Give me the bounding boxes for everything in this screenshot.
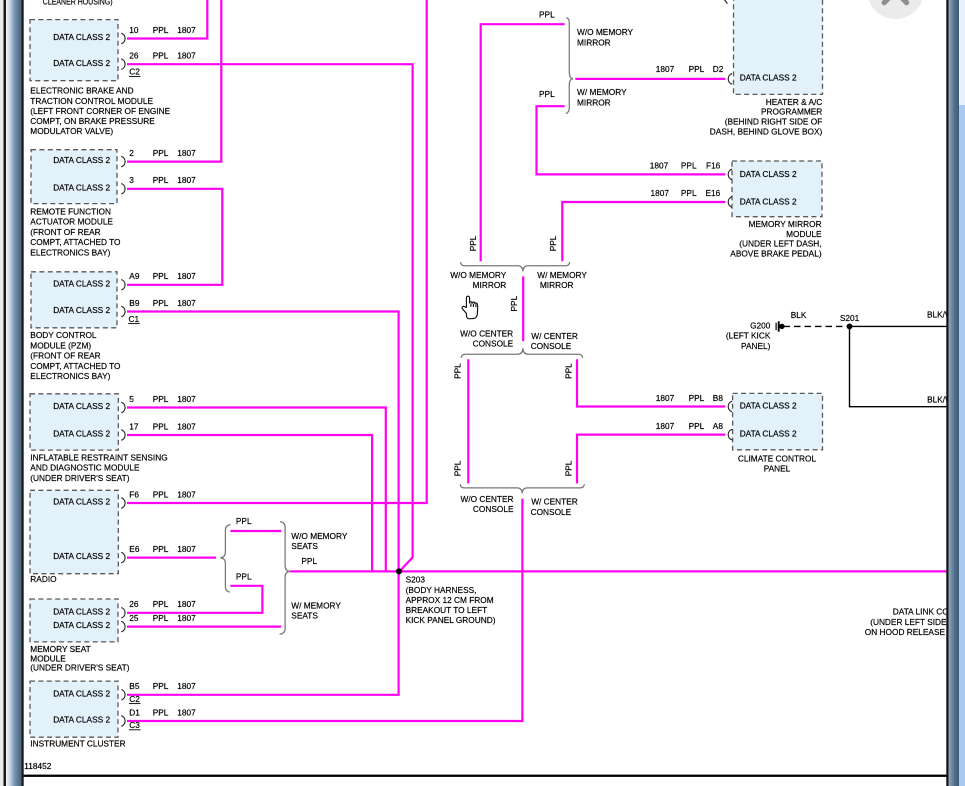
wire PPL w/ memory mirror branch to pin F16 [537, 106, 726, 174]
right scrollbar thumb [959, 105, 965, 786]
module label heater and ac programmer [710, 97, 823, 137]
svg-text:COMPT, ATTACHED TO: COMPT, ATTACHED TO [30, 361, 121, 371]
svg-text:PANEL: PANEL [764, 464, 791, 474]
svg-text:5: 5 [129, 394, 134, 404]
svg-text:PPL: PPL [153, 707, 169, 717]
connector pins left column [121, 0, 732, 726]
pin E6 [121, 552, 125, 563]
label data link connector clipped [865, 607, 965, 638]
brace merge memory mirror options [461, 262, 570, 271]
pin 26 seat [121, 608, 125, 619]
svg-text:PPL: PPL [153, 51, 169, 61]
branch label w/o memory mirror mid [450, 270, 507, 290]
svg-text:PPL: PPL [236, 516, 252, 526]
wire PPL w/ center console to pin B8 climate panel [577, 359, 725, 406]
svg-text:REMOTE FUNCTION: REMOTE FUNCTION [30, 207, 111, 217]
svg-text:25: 25 [129, 613, 139, 623]
svg-text:PROGRAMMER: PROGRAMMER [761, 107, 822, 117]
svg-text:PPL: PPL [153, 148, 169, 158]
svg-text:W/O CENTER: W/O CENTER [460, 494, 513, 504]
svg-text:(UNDER DRIVER'S SEAT): (UNDER DRIVER'S SEAT) [30, 473, 129, 483]
svg-text:CONSOLE: CONSOLE [473, 504, 514, 514]
svg-text:1807: 1807 [177, 681, 196, 691]
svg-text:1807: 1807 [177, 599, 196, 609]
svg-text:APPROX 12 CM FROM: APPROX 12 CM FROM [406, 595, 494, 605]
svg-text:DATA CLASS 2: DATA CLASS 2 [53, 155, 110, 165]
svg-text:DATA CLASS 2: DATA CLASS 2 [53, 620, 110, 630]
svg-text:PPL: PPL [153, 544, 169, 554]
svg-text:1807: 1807 [177, 707, 196, 717]
svg-text:W/ MEMORY: W/ MEMORY [537, 270, 587, 280]
svg-text:1807: 1807 [177, 298, 196, 308]
pin E16 [728, 197, 732, 208]
close button circle [867, 0, 924, 19]
pin 2 [121, 156, 125, 167]
svg-text:DATA CLASS 2: DATA CLASS 2 [53, 715, 110, 725]
svg-text:PPL: PPL [689, 421, 705, 431]
branch label w/ center console upper [531, 331, 578, 351]
module box radio [30, 490, 118, 573]
svg-text:KICK PANEL GROUND): KICK PANEL GROUND) [406, 615, 496, 625]
branch label w/ center console lower [531, 497, 578, 517]
svg-text:MIRROR: MIRROR [540, 280, 574, 290]
pin row labels right [650, 64, 724, 431]
svg-text:C2: C2 [129, 694, 140, 704]
svg-text:PPL: PPL [153, 489, 169, 499]
svg-text:PPL: PPL [153, 599, 169, 609]
module box inflatable restraint SDM [30, 394, 118, 450]
svg-text:W/ MEMORY: W/ MEMORY [291, 601, 341, 611]
svg-text:MEMORY SEAT: MEMORY SEAT [30, 644, 90, 654]
pin B8 [728, 401, 732, 412]
svg-text:PPL: PPL [539, 89, 555, 99]
wire PPL 1807 pin D2 heater programmer [575, 78, 725, 80]
svg-text:SEATS: SEATS [291, 611, 318, 621]
svg-text:1807: 1807 [177, 51, 196, 61]
svg-text:1807: 1807 [177, 544, 196, 554]
svg-text:1807: 1807 [177, 25, 196, 35]
svg-text:CONSOLE: CONSOLE [531, 341, 572, 351]
wire PPL 1807 pin 25 memory seat module [127, 625, 281, 627]
svg-text:COMPT, ON BRAKE PRESSURE: COMPT, ON BRAKE PRESSURE [30, 116, 155, 126]
cursor hand icon [462, 296, 478, 319]
svg-text:DATA CLASS 2: DATA CLASS 2 [740, 73, 797, 83]
module box memory seat module [30, 599, 118, 642]
svg-text:PPL: PPL [453, 363, 463, 379]
svg-text:SEATS: SEATS [291, 541, 318, 551]
brace split memory seats options [220, 525, 230, 593]
svg-text:DATA CLASS 2: DATA CLASS 2 [53, 182, 110, 192]
module label inflatable restraint [30, 453, 167, 483]
svg-text:2: 2 [129, 148, 134, 158]
svg-text:B5: B5 [129, 681, 140, 691]
svg-text:CLEANER HOUSING): CLEANER HOUSING) [43, 0, 113, 6]
svg-text:CONSOLE: CONSOLE [531, 507, 572, 517]
module label body control module [30, 330, 121, 381]
svg-text:DATA CLASS 2: DATA CLASS 2 [740, 196, 797, 206]
svg-text:ABOVE BRAKE PEDAL): ABOVE BRAKE PEDAL) [730, 249, 822, 259]
svg-text:PPL: PPL [548, 235, 558, 251]
module label remote function actuator [30, 207, 121, 258]
svg-text:F6: F6 [129, 489, 139, 499]
svg-text:F16: F16 [706, 160, 721, 170]
svg-text:1807: 1807 [650, 160, 669, 170]
wire PPL 1807 pin E6 radio to seats brace [127, 556, 216, 558]
branch label w/ memory seats [291, 601, 341, 621]
svg-text:DATA CLASS 2: DATA CLASS 2 [53, 429, 110, 439]
svg-text:PANEL): PANEL) [741, 341, 771, 351]
svg-text:B8: B8 [713, 393, 724, 403]
svg-text:(FRONT OF REAR: (FRONT OF REAR [30, 351, 100, 361]
pin F6 [121, 498, 125, 509]
wire BLK/W S201 to right [850, 325, 947, 327]
svg-text:W/ CENTER: W/ CENTER [531, 497, 578, 507]
svg-text:COMPT, ATTACHED TO: COMPT, ATTACHED TO [30, 237, 121, 247]
svg-text:PPL: PPL [453, 460, 463, 476]
wire PPL 1807 pin 3 RFA to pin A9 BCM [127, 189, 222, 285]
svg-text:(UNDER LEFT DASH,: (UNDER LEFT DASH, [739, 239, 821, 249]
wire PPL 1807 pin 26 EBTCM to splice S203 [127, 64, 413, 571]
wire PPL w/o memory seats branch [230, 530, 281, 532]
svg-text:PPL: PPL [681, 160, 697, 170]
svg-text:17: 17 [129, 421, 139, 431]
svg-text:TRACTION CONTROL MODULE: TRACTION CONTROL MODULE [30, 96, 153, 106]
svg-text:ACTUATOR MODULE: ACTUATOR MODULE [30, 217, 113, 227]
module label climate control panel [738, 454, 817, 474]
pin 17 [121, 430, 125, 441]
svg-text:C1: C1 [129, 314, 140, 324]
svg-text:W/O MEMORY: W/O MEMORY [577, 27, 634, 37]
svg-text:1807: 1807 [177, 613, 196, 623]
svg-text:PPL: PPL [689, 393, 705, 403]
svg-text:PPL: PPL [153, 394, 169, 404]
svg-text:1807: 1807 [656, 393, 675, 403]
svg-text:PPL: PPL [563, 363, 573, 379]
svg-text:DATA CLASS 2: DATA CLASS 2 [53, 551, 110, 561]
module box remote function actuator [31, 150, 117, 204]
svg-text:1807: 1807 [177, 175, 196, 185]
pin B5 C2 [121, 690, 125, 701]
wire PPL 1807 pin 17 SDM to S203 [127, 435, 372, 571]
wire PPL S203 to data link connector [290, 570, 946, 572]
svg-text:PPL: PPL [509, 295, 519, 311]
module label memory mirror module [730, 219, 822, 259]
module box instrument cluster [30, 681, 118, 737]
svg-text:MODULE: MODULE [786, 229, 822, 239]
svg-text:DASH, BEHIND GLOVE BOX): DASH, BEHIND GLOVE BOX) [710, 127, 823, 137]
svg-text:PPL: PPL [301, 556, 317, 566]
svg-text:1807: 1807 [656, 64, 675, 74]
branch label w/o memory mirror top [577, 27, 634, 47]
svg-text:1807: 1807 [656, 421, 675, 431]
pin F16 [728, 169, 732, 180]
svg-text:MEMORY MIRROR: MEMORY MIRROR [749, 219, 822, 229]
ground G200 symbol [776, 321, 779, 331]
pin D2 [728, 74, 732, 85]
wire PPL pin D1 cluster to center console brace [127, 499, 522, 721]
svg-text:BODY CONTROL: BODY CONTROL [30, 330, 97, 340]
brace merge center console options [460, 484, 584, 493]
svg-text:PPL: PPL [153, 681, 169, 691]
pin A8 [728, 429, 732, 440]
svg-text:26: 26 [129, 599, 139, 609]
wire PPL 1807 pin 10 EBTCM to top [127, 0, 207, 39]
pin A9 [121, 280, 125, 291]
svg-text:(BODY HARNESS,: (BODY HARNESS, [406, 585, 477, 595]
svg-text:MIRROR: MIRROR [577, 37, 611, 47]
module label EBTCM [30, 86, 170, 136]
svg-text:DATA CLASS 2: DATA CLASS 2 [53, 497, 110, 507]
close button X [884, 0, 906, 3]
left window frame [0, 0, 4, 786]
svg-text:PPL: PPL [153, 25, 169, 35]
svg-text:INSTRUMENT CLUSTER: INSTRUMENT CLUSTER [30, 739, 125, 749]
svg-text:DATA CLASS 2: DATA CLASS 2 [53, 606, 110, 616]
svg-text:G200: G200 [750, 321, 771, 331]
svg-text:INFLATABLE RESTRAINT SENSING: INFLATABLE RESTRAINT SENSING [30, 453, 167, 463]
pin B9 C1 [121, 306, 125, 317]
svg-text:(FRONT OF REAR: (FRONT OF REAR [30, 227, 100, 237]
svg-text:(LEFT FRONT CORNER OF ENGINE: (LEFT FRONT CORNER OF ENGINE [30, 106, 170, 116]
svg-text:118452: 118452 [24, 761, 51, 771]
DATA CLASS 2 labels left boxes [53, 32, 110, 725]
svg-text:CONSOLE: CONSOLE [473, 339, 514, 349]
wire PPL w/o center console left leg [467, 359, 469, 483]
svg-text:W/O MEMORY: W/O MEMORY [291, 531, 348, 541]
splice S203 [396, 568, 402, 574]
branch label w/o center console lower [460, 494, 513, 514]
svg-text:MIRROR: MIRROR [473, 280, 507, 290]
pin row labels left [129, 25, 196, 718]
pin 26 C2 [121, 59, 125, 70]
node label S203 [406, 574, 496, 625]
svg-text:10: 10 [129, 25, 139, 35]
svg-text:D1: D1 [129, 707, 140, 717]
wire PPL 1807 pin 2 RFA to top [127, 0, 221, 162]
svg-text:CLIMATE CONTROL: CLIMATE CONTROL [738, 454, 817, 464]
wire PPL w/ memory seats branch to pin 26 memory seat module [127, 586, 262, 613]
svg-text:C2: C2 [129, 67, 140, 77]
module box body control module [31, 272, 117, 328]
svg-text:MODULATOR VALVE): MODULATOR VALVE) [30, 126, 113, 136]
module box EBTCM [30, 20, 118, 81]
svg-text:AND DIAGNOSTIC MODULE: AND DIAGNOSTIC MODULE [30, 463, 140, 473]
pin 25 seat [121, 621, 125, 632]
DATA CLASS 2 labels right boxes [740, 73, 797, 439]
svg-text:W/O CENTER: W/O CENTER [460, 328, 513, 338]
right window frame [946, 0, 948, 786]
pin 3 [121, 184, 125, 195]
module box heater and ac programmer (top cut) [734, 0, 823, 94]
wire PPL pin A8 climate panel to console merge brace [577, 435, 725, 484]
svg-text:DATA CLASS 2: DATA CLASS 2 [740, 428, 797, 438]
svg-text:DATA CLASS 2: DATA CLASS 2 [53, 688, 110, 698]
svg-text:26: 26 [129, 51, 139, 61]
pin cut at heater box top [724, 0, 728, 4]
svg-text:PPL: PPL [153, 421, 169, 431]
module label memory seat module [30, 644, 129, 673]
svg-text:E6: E6 [129, 544, 140, 554]
svg-text:(LEFT KICK: (LEFT KICK [726, 331, 771, 341]
wire PPL mirror brace to console brace [522, 276, 524, 341]
svg-text:DATA CLASS 2: DATA CLASS 2 [53, 278, 110, 288]
module box climate control panel [733, 393, 823, 449]
svg-text:PPL: PPL [689, 64, 705, 74]
svg-text:(UNDER DRIVER'S SEAT): (UNDER DRIVER'S SEAT) [30, 663, 129, 673]
svg-text:PPL: PPL [153, 613, 169, 623]
svg-text:3: 3 [129, 175, 134, 185]
svg-text:A9: A9 [129, 271, 140, 281]
module box memory mirror module [732, 161, 822, 217]
svg-text:DATA CLASS 2: DATA CLASS 2 [53, 401, 110, 411]
wire BLK ground G200 to S201 dashed [784, 325, 850, 327]
svg-text:W/O MEMORY: W/O MEMORY [450, 270, 507, 280]
brace split center console options [461, 348, 582, 358]
brace mirror branches to D2 [566, 18, 574, 114]
svg-text:DATA CLASS 2: DATA CLASS 2 [53, 58, 110, 68]
wire PPL 1807 pin B9 BCM to S203 to pin B5 cluster [127, 312, 399, 695]
connector id labels C2 C1 C2 C3 [129, 67, 141, 730]
braces [220, 18, 584, 635]
branch label w/ memory mirror mid [537, 270, 587, 290]
svg-text:DATA CLASS 2: DATA CLASS 2 [53, 32, 110, 42]
svg-text:MIRROR: MIRROR [577, 97, 611, 107]
wire BLK/W S201 down and right [850, 326, 947, 406]
svg-text:C3: C3 [129, 720, 140, 730]
pin 10 [121, 33, 125, 44]
bottom border line [24, 775, 947, 777]
svg-text:DATA CLASS 2: DATA CLASS 2 [740, 400, 797, 410]
pin 5 [121, 402, 125, 413]
svg-text:ELECTRONIC BRAKE AND: ELECTRONIC BRAKE AND [30, 86, 133, 96]
right scrollbar track [959, 0, 965, 105]
svg-text:1807: 1807 [651, 188, 670, 198]
svg-text:HEATER & A/C: HEATER & A/C [766, 97, 823, 107]
svg-text:DATA CLASS 2: DATA CLASS 2 [740, 169, 797, 179]
svg-text:A8: A8 [713, 421, 724, 431]
svg-text:ELECTRONICS BAY): ELECTRONICS BAY) [30, 247, 110, 257]
branch label w/o memory seats [291, 531, 348, 551]
wire PPL 1807 pin F6 radio to top [127, 0, 427, 503]
svg-text:PPL: PPL [539, 10, 555, 20]
svg-text:1807: 1807 [177, 421, 196, 431]
wire PPL 1807 pin 5 SDM to S203 [127, 408, 386, 572]
svg-text:1807: 1807 [177, 148, 196, 158]
svg-text:E16: E16 [706, 188, 721, 198]
svg-text:PPL: PPL [563, 460, 573, 476]
svg-text:PPL: PPL [236, 572, 252, 582]
svg-text:PPL: PPL [153, 298, 169, 308]
svg-text:ELECTRONICS BAY): ELECTRONICS BAY) [30, 371, 110, 381]
svg-text:S203: S203 [406, 574, 426, 584]
svg-text:S201: S201 [840, 313, 860, 323]
svg-text:PPL: PPL [681, 188, 697, 198]
pin D1 C3 [121, 716, 125, 727]
node label G200 [726, 321, 771, 352]
svg-text:1807: 1807 [177, 271, 196, 281]
svg-text:BLK: BLK [791, 310, 807, 320]
svg-text:PPL: PPL [468, 235, 478, 251]
wire PPL w/o memory mirror branch [481, 24, 565, 261]
svg-text:W/ CENTER: W/ CENTER [531, 331, 578, 341]
wire PPL 1807 pin E16 memory mirror module [562, 202, 725, 261]
svg-text:B9: B9 [129, 298, 140, 308]
svg-text:RADIO: RADIO [30, 574, 57, 584]
svg-text:W/ MEMORY: W/ MEMORY [577, 87, 627, 97]
svg-text:1807: 1807 [177, 394, 196, 404]
svg-text:(BEHIND RIGHT SIDE OF: (BEHIND RIGHT SIDE OF [725, 117, 823, 127]
svg-text:1807: 1807 [177, 489, 196, 499]
svg-text:MODULE (PZM): MODULE (PZM) [30, 340, 91, 350]
branch label w/ memory mirror top [577, 87, 627, 107]
svg-text:BREAKOUT TO LEFT: BREAKOUT TO LEFT [406, 605, 488, 615]
splice S201 [847, 324, 853, 330]
svg-text:DATA CLASS 2: DATA CLASS 2 [53, 305, 110, 315]
svg-text:PPL: PPL [153, 175, 169, 185]
brace merge memory seats options [280, 522, 291, 635]
svg-text:D2: D2 [713, 64, 724, 74]
branch label w/o center console upper [460, 328, 513, 348]
svg-text:PPL: PPL [153, 271, 169, 281]
